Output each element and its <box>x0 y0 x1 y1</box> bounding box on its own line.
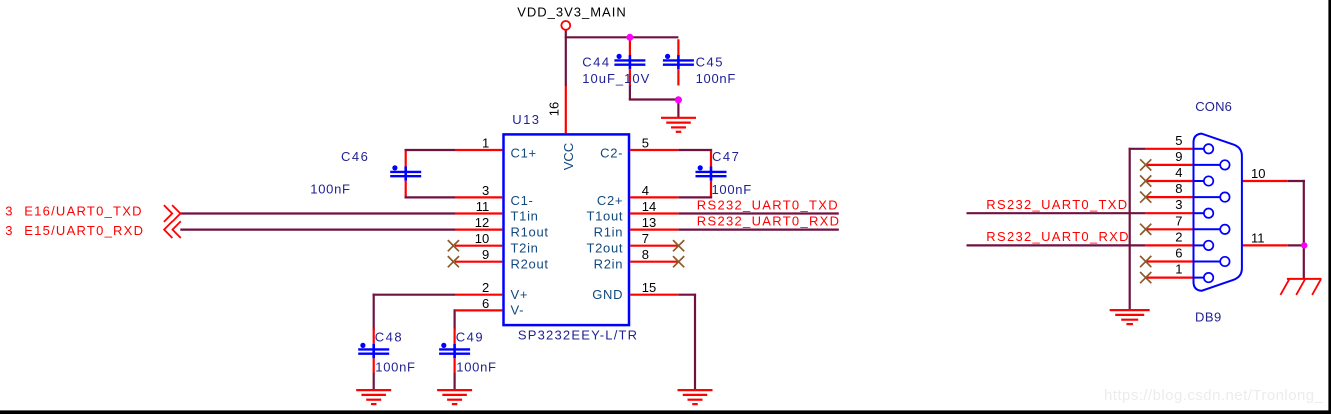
svg-text:C1+: C1+ <box>511 145 537 160</box>
svg-text:C49: C49 <box>456 329 484 344</box>
svg-text:V-: V- <box>511 303 525 318</box>
svg-text:100nF: 100nF <box>310 182 350 197</box>
svg-text:T1in: T1in <box>511 209 539 224</box>
svg-text:T1out: T1out <box>586 209 623 224</box>
svg-text:RS232_UART0_TXD: RS232_UART0_TXD <box>986 197 1128 212</box>
svg-text:2: 2 <box>1175 229 1182 244</box>
svg-text:DB9: DB9 <box>1195 309 1222 324</box>
svg-text:4: 4 <box>642 183 649 198</box>
svg-text:C2+: C2+ <box>597 193 623 208</box>
svg-text:VDD_3V3_MAIN: VDD_3V3_MAIN <box>517 4 627 19</box>
svg-text:R2out: R2out <box>511 256 549 271</box>
svg-text:https://blog.csdn.net/Tronlong: https://blog.csdn.net/Tronlong_ <box>1104 387 1324 404</box>
svg-text:10: 10 <box>475 231 489 246</box>
svg-text:11: 11 <box>1251 230 1265 245</box>
svg-text:7: 7 <box>642 231 649 246</box>
svg-text:C47: C47 <box>712 149 740 164</box>
svg-text:RS232_UART0_RXD: RS232_UART0_RXD <box>697 213 841 228</box>
svg-text:6: 6 <box>1175 246 1182 261</box>
svg-text:C46: C46 <box>341 149 369 164</box>
svg-text:3: 3 <box>5 223 12 238</box>
svg-text:4: 4 <box>1175 165 1182 180</box>
svg-text:GND: GND <box>592 287 623 302</box>
svg-text:V+: V+ <box>511 287 529 302</box>
svg-text:R1out: R1out <box>511 225 549 240</box>
svg-text:10: 10 <box>1251 166 1265 181</box>
svg-text:RS232_UART0_TXD: RS232_UART0_TXD <box>697 197 839 212</box>
svg-text:100nF: 100nF <box>712 182 752 197</box>
svg-text:T2out: T2out <box>586 240 623 255</box>
svg-text:3: 3 <box>1175 197 1182 212</box>
svg-text:SP3232EEY-L/TR: SP3232EEY-L/TR <box>518 328 638 343</box>
svg-text:100nF: 100nF <box>456 360 496 375</box>
svg-text:8: 8 <box>1175 181 1182 196</box>
svg-text:100nF: 100nF <box>696 71 736 86</box>
svg-text:C2-: C2- <box>600 145 623 160</box>
svg-text:3: 3 <box>482 183 489 198</box>
svg-text:RS232_UART0_RXD: RS232_UART0_RXD <box>986 229 1130 244</box>
svg-text:E16/UART0_TXD: E16/UART0_TXD <box>24 203 143 218</box>
svg-text:R2in: R2in <box>594 256 624 271</box>
svg-text:E15/UART0_RXD: E15/UART0_RXD <box>24 223 144 238</box>
svg-text:100nF: 100nF <box>375 360 415 375</box>
svg-text:9: 9 <box>1175 149 1182 164</box>
svg-text:U13: U13 <box>512 112 540 127</box>
svg-text:C44: C44 <box>582 54 610 69</box>
svg-text:1: 1 <box>1175 262 1182 277</box>
svg-text:13: 13 <box>642 215 656 230</box>
svg-text:15: 15 <box>642 280 656 295</box>
svg-text:R1in: R1in <box>594 225 624 240</box>
svg-text:1: 1 <box>482 136 489 151</box>
svg-text:9: 9 <box>482 247 489 262</box>
svg-text:14: 14 <box>642 199 656 214</box>
svg-text:6: 6 <box>482 296 489 311</box>
svg-text:5: 5 <box>1175 133 1182 148</box>
svg-text:8: 8 <box>642 247 649 262</box>
svg-text:T2in: T2in <box>511 240 539 255</box>
svg-text:16: 16 <box>546 102 561 116</box>
svg-text:2: 2 <box>482 280 489 295</box>
svg-text:C48: C48 <box>375 329 403 344</box>
svg-text:3: 3 <box>5 203 12 218</box>
svg-text:11: 11 <box>476 199 490 214</box>
svg-text:7: 7 <box>1175 213 1182 228</box>
svg-text:12: 12 <box>475 215 489 230</box>
svg-text:C1-: C1- <box>511 193 534 208</box>
svg-text:10uF_10V: 10uF_10V <box>582 71 650 86</box>
svg-text:5: 5 <box>642 136 649 151</box>
svg-text:C45: C45 <box>696 54 724 69</box>
svg-text:VCC: VCC <box>561 143 576 170</box>
svg-text:CON6: CON6 <box>1195 99 1232 114</box>
